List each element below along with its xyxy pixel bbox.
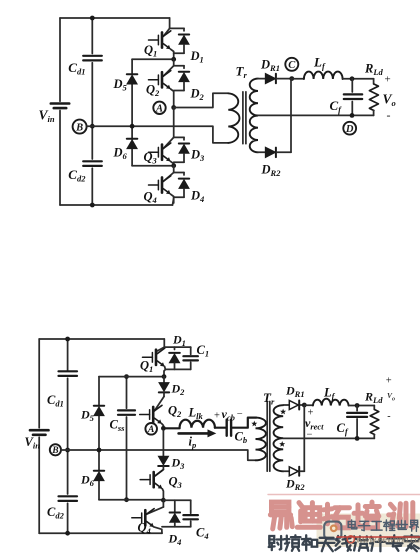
svg-text:B: B <box>51 446 58 456</box>
svg-text:B: B <box>75 122 83 133</box>
svg-text:+: + <box>385 74 391 86</box>
svg-text:-: - <box>387 411 390 422</box>
svg-text:www.eeworld.com.cn: www.eeworld.com.cn <box>357 534 420 544</box>
svg-text:A: A <box>147 425 154 435</box>
svg-text:−: − <box>307 430 313 441</box>
svg-text:-: - <box>387 108 391 122</box>
svg-text:+: + <box>386 376 392 387</box>
svg-text:A: A <box>155 104 163 115</box>
svg-text:+: + <box>214 411 220 422</box>
svg-text:D: D <box>345 124 354 135</box>
svg-text:−: − <box>237 409 243 420</box>
svg-text:C: C <box>288 60 296 71</box>
